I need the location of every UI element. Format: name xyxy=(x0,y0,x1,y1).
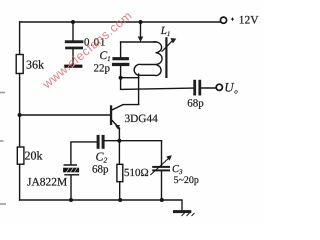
transistor emitter lead with arrow xyxy=(112,121,119,129)
wire left rail (36k to base node) xyxy=(19,74,21,116)
wire tank bottom xyxy=(121,77,139,79)
node tank bottom junction xyxy=(119,76,123,80)
node C3-ground xyxy=(160,198,164,202)
capacitor 68p output plates xyxy=(193,80,196,96)
capacitor C1 lead top xyxy=(120,42,122,57)
svg-text:12V: 12V xyxy=(239,14,259,26)
wire crystal to ground xyxy=(70,176,72,201)
svg-text:JA822M: JA822M xyxy=(27,177,67,189)
capacitor C1 lead bottom xyxy=(120,66,122,78)
inductor L1 core bar xyxy=(165,37,167,78)
crystal JA822M body bar xyxy=(63,168,79,173)
svg-text:5~20p: 5~20p xyxy=(174,175,199,186)
svg-text:20k: 20k xyxy=(25,148,43,162)
svg-text:3DG44: 3DG44 xyxy=(125,113,159,125)
crystal JA822M top plate xyxy=(64,164,76,166)
svg-text:68p: 68p xyxy=(92,164,109,176)
wire tank top xyxy=(121,41,156,43)
svg-text:C2: C2 xyxy=(96,150,108,165)
wire left rail (top segment to 36k) xyxy=(19,22,21,55)
wire output from tank node xyxy=(121,78,194,90)
node 510-ground xyxy=(118,198,122,202)
wire C3 to ground xyxy=(161,171,163,200)
svg-text:C1: C1 xyxy=(100,50,111,63)
wire rail to tank top xyxy=(140,22,142,37)
resistor R 36k xyxy=(16,55,23,74)
node 0.01 cap on rail xyxy=(71,20,75,24)
inductor L1 adjust arrow xyxy=(162,41,173,52)
svg-text:36k: 36k xyxy=(26,58,44,72)
wire emitter down xyxy=(118,128,120,164)
transistor Q 3DG44 base bar xyxy=(110,105,112,125)
ground right hatches xyxy=(182,213,195,216)
wire left rail (20k to bottom) xyxy=(19,164,21,200)
capacitor C3 arrow xyxy=(151,159,168,175)
terminal Uo circle xyxy=(216,84,222,90)
wire 510 to ground xyxy=(119,182,121,200)
resistor R 20k xyxy=(17,147,24,164)
capacitor 0.01 lead top xyxy=(72,22,74,40)
node base-divider junction xyxy=(18,113,22,117)
svg-text:L1: L1 xyxy=(160,25,171,38)
resistor R 510 body xyxy=(117,164,123,181)
node tank riser on rail xyxy=(139,20,143,24)
capacitor 0.01 plates xyxy=(65,40,84,43)
wire C3 riser xyxy=(161,141,163,166)
junction arrow at tank top xyxy=(138,37,144,43)
svg-text:Uo: Uo xyxy=(224,79,238,95)
wire C2 left lead xyxy=(71,142,97,165)
wire collector riser xyxy=(138,74,140,104)
wire left rail (base node to 20k) xyxy=(19,115,21,147)
svg-text:510Ω: 510Ω xyxy=(124,167,149,179)
capacitor 0.01 lead bottom xyxy=(72,49,74,65)
ground right drop xyxy=(181,200,183,210)
edge artifact marks xyxy=(0,93,6,205)
inductor L1 coil xyxy=(134,42,162,76)
svg-text:22p: 22p xyxy=(94,62,111,74)
wire 68p to terminal xyxy=(201,87,216,89)
crystal JA822M bottom plate xyxy=(65,174,79,176)
wire bottom ground rail xyxy=(20,199,182,201)
ground bar under 0.01 xyxy=(64,65,82,68)
terminal +12V circle xyxy=(220,17,226,23)
wire base xyxy=(20,114,111,116)
wire C2 right to emitter and C3 xyxy=(105,140,162,142)
label +12V plus sign xyxy=(231,18,234,21)
wire top rail +12V xyxy=(20,21,221,23)
ground right bar xyxy=(173,210,191,213)
capacitor C2 plates xyxy=(97,135,100,149)
node emitter/C2 junction xyxy=(117,139,121,143)
transistor collector lead xyxy=(112,105,138,110)
capacitor C1 plates xyxy=(112,57,128,60)
node crystal-ground xyxy=(69,198,73,202)
capacitor C3 plates xyxy=(152,166,170,168)
svg-text:68p: 68p xyxy=(187,98,204,110)
